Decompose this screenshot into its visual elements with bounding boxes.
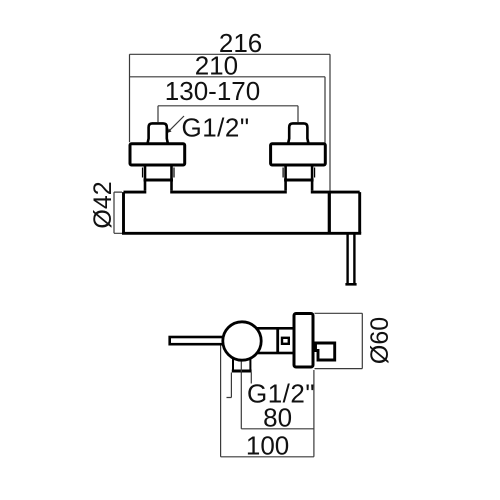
side view barrel [245, 328, 294, 353]
dimension Ø42 [114, 192, 122, 233]
wall flange [294, 314, 313, 368]
leader G1/2 bottom [227, 373, 252, 398]
main body front view [122, 192, 361, 233]
dimension Ø60 [315, 313, 363, 368]
body end-cap divider [328, 192, 331, 233]
svg-text:Ø60: Ø60 [366, 317, 394, 364]
left fitting nipple [148, 123, 168, 143]
left fitting spacer [143, 165, 175, 191]
right fitting escutcheon [271, 144, 326, 165]
side view outlet under valve [232, 356, 252, 371]
wall outlet square [316, 343, 335, 360]
right fitting spacer [283, 165, 315, 191]
svg-text:80: 80 [263, 402, 292, 432]
barrel divider [276, 328, 279, 353]
dimension 130-170 [158, 106, 298, 122]
svg-text:100: 100 [246, 430, 289, 460]
dimension 216 [130, 54, 331, 190]
svg-text:Ø42: Ø42 [89, 181, 117, 228]
outlet centre line [240, 362, 242, 373]
svg-text:G1/2": G1/2" [182, 112, 250, 142]
side view valve circle [223, 322, 261, 360]
dimension 210 [130, 77, 326, 144]
left fitting escutcheon [130, 144, 185, 165]
side view handle [170, 337, 234, 344]
leader G1/2 front [168, 116, 185, 133]
dimension 100 [221, 346, 314, 457]
dimension 80 [241, 370, 314, 457]
svg-text:130-170: 130-170 [165, 76, 260, 106]
barrel screw square [282, 338, 289, 344]
right fitting nipple [288, 123, 308, 143]
shower hose outlet pipe [345, 235, 356, 285]
